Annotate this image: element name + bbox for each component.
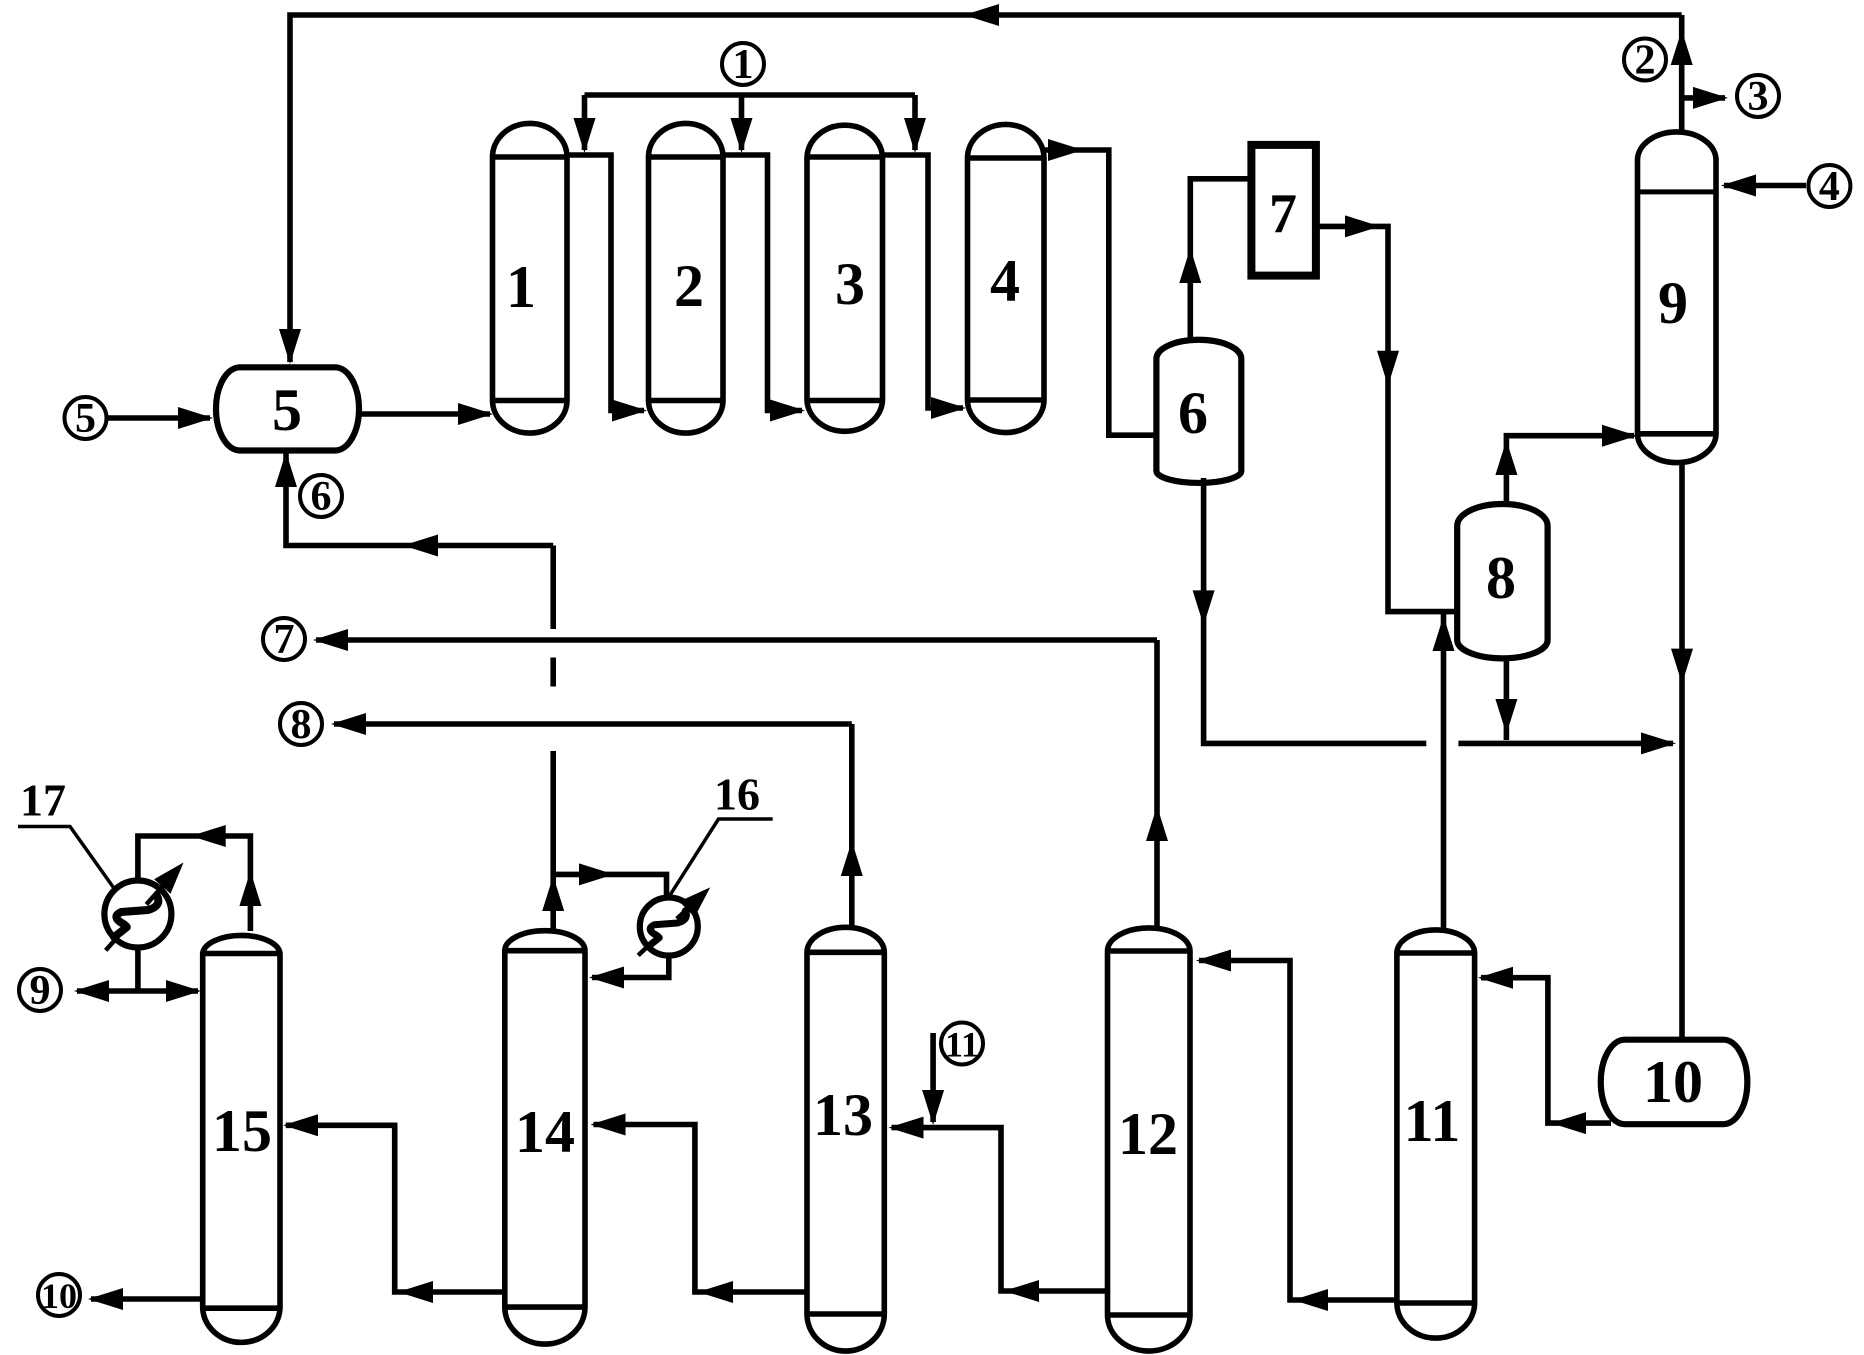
- arrow: down: [1193, 590, 1215, 625]
- svg-text:11: 11: [945, 1025, 979, 1065]
- stream label 5 (circled): [65, 397, 107, 439]
- arrow: reactor 4 effluent: [1048, 139, 1083, 161]
- wire: column 13 overhead riser: [849, 724, 855, 930]
- wire: quench drop to reactor 1 outlet: [582, 95, 588, 150]
- wire: stream 4 feed into column 9: [1724, 183, 1806, 189]
- arrow: overhead up: [1671, 30, 1693, 65]
- stream label 11 (circled): [941, 1023, 983, 1065]
- unit 7 (box): [1251, 145, 1316, 276]
- svg-text:5: 5: [75, 396, 96, 442]
- stream label 2 (circled): [1624, 39, 1666, 81]
- wire: column 9 bottoms down to drum 10: [1679, 463, 1685, 1040]
- svg-text:14: 14: [515, 1099, 575, 1165]
- wire: column 12 overhead riser: [1154, 640, 1160, 929]
- wire: continues to column 9 bottoms line: [1458, 741, 1673, 747]
- arrow: into mixer 5 top: [279, 329, 301, 364]
- arrow: unit 7 outlet: [1345, 215, 1380, 237]
- arrow: vessel 8 bottoms down: [1495, 699, 1517, 734]
- wire: column 9 overhead recycle to mixer 5: [290, 15, 1682, 362]
- wire: separator 6 overhead to unit 7: [1190, 179, 1251, 341]
- svg-text:4: 4: [1819, 164, 1840, 210]
- wire: reactor 1 top to reactor 2 bottom: [567, 155, 644, 411]
- arrow: vapor up from separator 6: [1179, 248, 1201, 283]
- arrow: into column 15: [283, 1114, 318, 1136]
- arrow: up: [841, 841, 863, 876]
- wire: vessel 8 bottoms down: [1504, 658, 1510, 740]
- wire: condenser 16 return to column 14: [592, 956, 669, 978]
- condenser 16: [640, 898, 698, 956]
- wire: drum 10 liquid to column 11 feed: [1481, 978, 1611, 1123]
- arrow: into column 9: [1602, 425, 1637, 447]
- column 13: [807, 927, 884, 1351]
- svg-text:16: 16: [714, 769, 760, 820]
- svg-text:4: 4: [990, 248, 1020, 314]
- svg-text:9: 9: [1658, 270, 1688, 336]
- arrow: joins line to drum 10: [1641, 732, 1676, 754]
- arrow: column 11 overhead flows up: [1433, 616, 1455, 651]
- vessel 8: [1457, 504, 1547, 658]
- svg-text:10: 10: [1643, 1049, 1703, 1115]
- arrow: to condenser: [579, 863, 614, 885]
- svg-text:3: 3: [835, 251, 865, 317]
- wire: mixer 5 outlet to reactor 1 bottom: [359, 411, 490, 417]
- svg-text:2: 2: [674, 253, 704, 319]
- separator vessel 6: [1156, 340, 1241, 483]
- wire: column 11 overhead riser to vessel 8 inlet: [1441, 612, 1447, 930]
- wire: stream 7 from column 12 overhead: [316, 637, 1157, 643]
- wire: stream 8 from column 13 overhead: [334, 721, 852, 727]
- arrow: overhead up: [239, 871, 261, 906]
- condenser 17: [104, 881, 171, 948]
- wire: make-up stream 11 into column 13 feed line: [930, 1033, 936, 1122]
- wire: column 15 overhead to condenser 17: [138, 836, 251, 931]
- arrow: reflux into column 15: [166, 980, 201, 1002]
- arrow: bottoms flow left: [698, 1281, 733, 1303]
- column 9 feed tray line: [1638, 189, 1717, 194]
- wire: condenser 17 outlet down: [135, 948, 141, 992]
- stream label 4 (circled): [1808, 165, 1850, 207]
- svg-text:17: 17: [20, 775, 66, 826]
- column 14: [505, 931, 585, 1344]
- svg-text:7: 7: [274, 617, 295, 663]
- wire: purge stream 3 branch: [1682, 95, 1725, 101]
- arrow: up: [1146, 806, 1168, 841]
- stream label 8 (circled): [280, 703, 322, 745]
- wire: column 14 overhead riser upper part: [550, 546, 556, 630]
- arrow: into column 12: [1196, 950, 1231, 972]
- reactor vessel 2: [649, 123, 724, 433]
- wire: reactor 2 top to reactor 3 bottom: [723, 155, 802, 411]
- svg-text:3: 3: [1748, 74, 1769, 120]
- wire: column 9 overhead riser: [1679, 15, 1685, 132]
- arrow: into column 11: [1478, 967, 1513, 989]
- svg-text:10: 10: [41, 1276, 77, 1316]
- arrow: bottoms down: [1671, 649, 1693, 684]
- wire: unit 7 outlet down to vessel 8 inlet: [1316, 226, 1457, 611]
- column 12: [1108, 928, 1191, 1351]
- wire: recycle stream 6 into mixer 5 bottom: [286, 449, 553, 546]
- arrow: bottoms flow left: [1004, 1280, 1039, 1302]
- stream label 6 (circled): [300, 475, 342, 517]
- svg-text:6: 6: [311, 474, 332, 520]
- svg-text:7: 7: [1269, 183, 1297, 245]
- svg-text:13: 13: [813, 1082, 873, 1148]
- wire: reactor 4 top to separator 6: [1044, 150, 1156, 435]
- wire: riser segment between crossovers: [550, 658, 556, 687]
- stream label 9 (circled): [19, 969, 61, 1011]
- column 9: [1638, 132, 1717, 463]
- arrow: into column 13: [889, 1117, 924, 1139]
- svg-text:12: 12: [1118, 1101, 1178, 1167]
- reactor vessel 4: [968, 124, 1045, 432]
- svg-text:11: 11: [1404, 1088, 1461, 1154]
- column 11: [1397, 930, 1475, 1338]
- arrow: bottoms flow left: [1293, 1289, 1328, 1311]
- wire: vessel 8 overhead to column 9: [1506, 436, 1634, 504]
- wire: column 11 bottoms to column 12: [1199, 961, 1397, 1301]
- wire: column 12 bottoms to column 13: [892, 1128, 1108, 1291]
- arrow: recycle flows left: [964, 4, 999, 26]
- drum 10: [1601, 1040, 1748, 1125]
- leader line for 17: [18, 827, 115, 890]
- svg-text:15: 15: [212, 1098, 272, 1164]
- wire: column 13 bottoms to column 14: [594, 1125, 808, 1293]
- wire: reflux and product stream 9 header: [77, 988, 198, 994]
- svg-text:8: 8: [291, 702, 312, 748]
- arrow: stream 6 flows left: [403, 535, 438, 557]
- arrow: column 14 overhead flows up: [542, 876, 564, 911]
- svg-text:1: 1: [506, 254, 536, 320]
- wire: quench drop to reactor 2 outlet: [739, 95, 745, 150]
- stream label 10 (circled): [38, 1274, 80, 1316]
- reactor vessel 1: [493, 123, 568, 433]
- column 15: [203, 935, 280, 1342]
- stream label 3 (circled): [1737, 75, 1779, 117]
- svg-text:5: 5: [272, 377, 302, 443]
- wire: reactor 3 top to reactor 4 bottom: [883, 155, 964, 408]
- arrow: into column 14: [591, 1114, 626, 1136]
- wire: column 14 overhead branch to condenser 16: [553, 874, 666, 898]
- leader line for 16: [669, 819, 773, 897]
- wire: column 15 bottoms product stream 10: [91, 1296, 203, 1302]
- wire: quench hydrogen manifold: [585, 92, 916, 98]
- arrow: flowing down: [1377, 351, 1399, 386]
- reactor vessel 3: [807, 125, 883, 431]
- wire: quench drop to reactor 3 outlet: [912, 95, 918, 150]
- svg-text:8: 8: [1486, 545, 1516, 611]
- arrow: to condenser 17: [191, 825, 226, 847]
- arrow: bottoms flow left: [398, 1281, 433, 1303]
- svg-text:9: 9: [30, 968, 51, 1014]
- mixer drum 5: [216, 367, 359, 450]
- svg-text:1: 1: [733, 42, 754, 88]
- svg-text:2: 2: [1635, 38, 1656, 84]
- wire: column 14 bottoms to column 15: [286, 1125, 505, 1292]
- wire: fresh feed stream 5 into mixer: [107, 415, 210, 421]
- svg-text:6: 6: [1178, 380, 1208, 446]
- arrow: product stream 9 out: [74, 980, 109, 1002]
- wire: separator 6 bottoms down and right: [1204, 478, 1427, 743]
- stream label 7 (circled): [263, 618, 305, 660]
- wire: column 14 overhead riser lower part: [550, 751, 556, 931]
- arrow: from drum 10: [1551, 1112, 1586, 1134]
- stream label 1 (circled): [722, 43, 764, 85]
